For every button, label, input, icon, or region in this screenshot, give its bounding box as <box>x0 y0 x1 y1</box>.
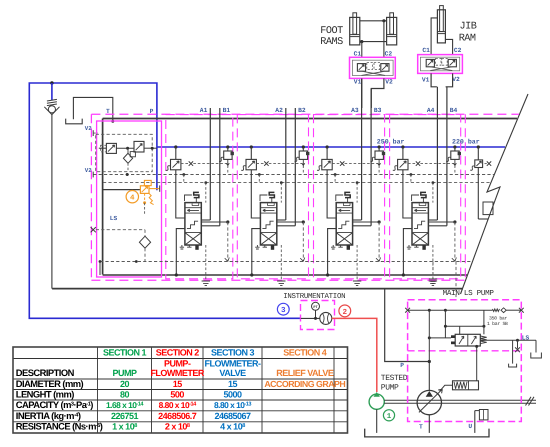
port mark at section divider for relief 4 <box>159 185 161 191</box>
node: P rail tap port-relief S4 <box>453 145 456 148</box>
tank mark below block S3 <box>353 281 361 286</box>
counterbalance valve right (foot) <box>381 64 389 72</box>
svg-text:RAM: RAM <box>459 33 476 44</box>
LS signal line out <box>480 339 517 341</box>
phantom 5th section cut by break line <box>477 145 480 148</box>
svg-text:V1: V1 <box>354 79 362 86</box>
counterbalance valve left (jib) <box>426 59 434 66</box>
work line B2 <box>294 108 296 226</box>
magenta inner box around inlet section <box>97 121 162 277</box>
work line B3 <box>370 89 372 226</box>
parameters table <box>13 347 348 433</box>
pilot dashed rail 2 <box>103 182 491 184</box>
main pump (variable, circle) <box>417 390 441 414</box>
svg-text:DIAMETER (mm): DIAMETER (mm) <box>16 378 84 389</box>
svg-text:PUMP: PUMP <box>112 368 136 378</box>
wire C1 jib (rod side) <box>431 18 437 55</box>
circled 3 (blue) <box>277 303 289 315</box>
tank marks under spool S2 <box>255 245 259 249</box>
svg-text:U: U <box>468 423 472 430</box>
spool spring actuator S1 <box>194 192 199 197</box>
svg-text:INERTIA (kg·m-4): INERTIA (kg·m-4) <box>16 410 81 421</box>
crossing pilot lines (foot) <box>362 71 386 75</box>
svg-text:RESISTANCE (Ns·m-5): RESISTANCE (Ns·m-5) <box>16 421 103 432</box>
node: T port junction <box>111 120 114 123</box>
svg-text:226751: 226751 <box>111 411 139 421</box>
pressure compensator S4 <box>398 159 408 169</box>
svg-text:220 bar: 220 bar <box>452 139 480 146</box>
magenta internal divider (pump box) <box>408 350 522 352</box>
svg-text:PUMP: PUMP <box>381 383 399 392</box>
directional spool valve S3 <box>336 203 352 245</box>
wire: compensator out to spool S1 <box>176 170 185 218</box>
work line A4 <box>436 87 438 220</box>
LS tap from spool S2 <box>277 221 304 223</box>
svg-text:SECTION 4: SECTION 4 <box>283 347 327 357</box>
svg-text:MAIN LS PUMP: MAIN LS PUMP <box>443 289 495 298</box>
wire: compensator feed S4 <box>402 147 404 159</box>
tested pump drain to tank <box>376 409 378 433</box>
directional spool valve S1 <box>185 203 201 245</box>
spool drain to tank rail S2 <box>252 229 261 275</box>
wire: compensator out to spool S2 <box>251 170 260 218</box>
flowmeter <box>320 312 332 324</box>
orange relief valve 4 feed line <box>103 189 141 191</box>
LS dashed line to main pump <box>455 262 457 300</box>
jib counterbalance valve box (magenta) <box>418 55 463 74</box>
node: P rail tap compensator S2 <box>250 145 253 148</box>
circled 2 (red) <box>339 305 351 317</box>
jib ram cylinder <box>437 10 445 43</box>
pressure reducing valve A (inlet) <box>106 143 116 153</box>
spool drain to tank rail S4 <box>403 229 412 275</box>
dashed pilot under orange relief <box>144 193 146 202</box>
svg-text:ACCORDING GRAPH: ACCORDING GRAPH <box>264 379 345 389</box>
pressure reducing valve B (inlet) <box>134 141 144 152</box>
check/filter diamond upper (inlet) <box>123 153 132 163</box>
node: P rail tap port-relief S2 <box>302 145 305 148</box>
spool spring actuator S2 <box>269 192 274 197</box>
svg-text:VALVE: VALVE <box>219 368 246 378</box>
svg-text:C2: C2 <box>454 47 462 54</box>
svg-text:B4: B4 <box>450 107 458 114</box>
wire LS valve to stroking piston <box>476 346 478 381</box>
crossing pilot lines (jib) <box>430 67 452 71</box>
magenta enclosure section 4 <box>390 115 461 279</box>
svg-text:FLOWMETER-: FLOWMETER- <box>205 358 261 368</box>
port marks on left edge V2/V3 <box>92 172 94 178</box>
svg-text:C2: C2 <box>385 50 393 57</box>
node: P rail tap compensator S4 <box>401 145 404 148</box>
svg-text:V2: V2 <box>452 76 460 83</box>
work line A3 <box>361 78 363 220</box>
svg-text:1: 1 <box>387 413 392 421</box>
node: P rail tap port-relief S3 <box>378 145 381 148</box>
magenta enclosure section 3 <box>314 115 385 279</box>
spool drain to tank rail S3 <box>328 229 337 275</box>
svg-text:B2: B2 <box>298 107 306 114</box>
wire into flowmeter <box>301 317 320 319</box>
work line B1 <box>219 108 221 226</box>
svg-text:JIB: JIB <box>460 22 477 33</box>
pressure compensator S1 <box>171 159 181 169</box>
magenta enclosure section 1 <box>166 115 233 279</box>
wire: foot rams piston-side interconnect <box>360 41 387 43</box>
port relief valve S4 <box>454 147 456 151</box>
wire V2 to B3 <box>371 78 384 108</box>
spool X cell S2 <box>260 233 276 245</box>
tank marks under spool S1 <box>180 245 184 249</box>
svg-text:PUMP-: PUMP- <box>164 358 191 368</box>
wire V1 to A3 <box>361 78 363 108</box>
pilot dashes and LS drain S4 <box>410 173 413 176</box>
foot ram cylinder left <box>350 17 360 45</box>
svg-text:4 x 108: 4 x 108 <box>220 422 245 432</box>
spool spring actuator S4 <box>421 192 426 197</box>
LS control valve (main pump) <box>455 334 480 346</box>
inlet pilot dashed enclosure <box>96 134 153 171</box>
svg-text:A4: A4 <box>427 107 435 114</box>
circled 1 (green) <box>383 410 394 421</box>
wire: relief valve drain down to tank rail <box>51 115 53 289</box>
valve block P outlet down to pump <box>385 289 430 362</box>
svg-text:1 x 108: 1 x 108 <box>112 422 137 432</box>
pump case drain T <box>428 415 430 433</box>
svg-text:LS: LS <box>110 215 118 222</box>
wires feeding LS valve <box>444 310 446 338</box>
svg-text:RELIEF VALVE: RELIEF VALVE <box>276 368 334 378</box>
svg-text:3: 3 <box>281 306 286 315</box>
tank mark below block S4 <box>429 281 437 286</box>
svg-text:T: T <box>419 424 423 431</box>
spool spring actuator S3 <box>345 192 350 197</box>
blue supply loop (pump output line) <box>29 83 300 318</box>
svg-text:SECTION 3: SECTION 3 <box>211 347 255 357</box>
tank return rail inside block <box>103 274 467 276</box>
filter diamond lower (inlet) <box>139 236 150 248</box>
pump shaft out right with break <box>526 397 535 406</box>
node: tap on blue supply to relief valve <box>50 81 53 84</box>
wire C2 foot rams <box>383 21 385 58</box>
svg-text:2: 2 <box>343 308 348 317</box>
main tank under pumps <box>365 429 489 437</box>
port relief valve S3 <box>378 147 380 151</box>
magenta enclosure: outer dashed boundary of valve block <box>91 113 519 115</box>
svg-text:C1: C1 <box>422 47 430 54</box>
dashed pilot from compensator S1 <box>181 163 189 165</box>
wire: compensator out to spool S3 <box>327 170 336 218</box>
wire: T return from tank to valve block T port <box>73 97 112 121</box>
pilot dashes and LS drain S1 <box>182 173 185 176</box>
svg-text:V2: V2 <box>85 125 92 132</box>
wire C1 foot rams <box>361 42 363 58</box>
dashed pilot from compensator S4 <box>408 163 416 165</box>
node: inlet LS drop <box>99 260 102 263</box>
orange relief valve (adjustable) <box>140 186 149 194</box>
work line A1 <box>209 108 211 220</box>
svg-text:DESCRIPTION: DESCRIPTION <box>16 367 75 378</box>
svg-text:FLOWMETER: FLOWMETER <box>150 368 204 378</box>
port relief valve S2 <box>302 147 304 151</box>
tested pump (green circle) <box>369 394 384 409</box>
directional spool valve S4 <box>412 203 428 245</box>
tank mark below block S2 <box>277 281 285 286</box>
circled 4 (orange) <box>126 191 138 203</box>
main pump magenta enclosure <box>408 300 522 422</box>
svg-text:B3: B3 <box>374 107 382 114</box>
svg-text:A3: A3 <box>351 107 359 114</box>
svg-text:15: 15 <box>173 379 183 389</box>
block outer bottom edge / drain rail <box>52 288 463 290</box>
wire: compensator feed S1 <box>175 147 177 159</box>
break line (diagonal block boundary) <box>461 94 529 294</box>
dashed line from blocked port to filter <box>96 229 145 231</box>
svg-text:250 bar: 250 bar <box>377 139 405 146</box>
spool X cell S3 <box>336 233 352 245</box>
dashed pilot from compensator S2 <box>256 163 264 165</box>
pressure compensator S3 <box>322 159 332 169</box>
svg-text:RAMS: RAMS <box>320 37 343 48</box>
wire V1 to A4 <box>431 73 437 86</box>
work line A2 <box>285 108 287 220</box>
wire: foot rams rod-side interconnect <box>360 20 387 22</box>
svg-text:20: 20 <box>120 379 130 389</box>
pilot dashed rail 1 (V2 pilot line) <box>93 174 494 176</box>
spool X cell S4 <box>412 233 428 245</box>
wire: compensator feed S2 <box>250 147 252 159</box>
node: P rail tap port-relief S1 <box>226 145 229 148</box>
work line B4 <box>446 87 448 226</box>
svg-text:2 x 108: 2 x 108 <box>165 422 190 432</box>
svg-text:2468506.7: 2468506.7 <box>158 411 197 421</box>
svg-text:LENGHT (mm): LENGHT (mm) <box>16 388 74 399</box>
wire: inlet LS drop to tank rail <box>99 262 101 276</box>
svg-text:C1: C1 <box>354 50 362 57</box>
valve block outline (black casing) <box>103 118 517 120</box>
svg-text:1 bar SB: 1 bar SB <box>487 321 508 327</box>
svg-text:FOOT: FOOT <box>320 26 343 37</box>
wire: compensator feed S3 <box>326 147 328 159</box>
relief valve (spring-loaded check) on tank line <box>51 83 53 100</box>
svg-text:V2: V2 <box>85 167 92 174</box>
tank mark below block S1 <box>202 281 210 286</box>
svg-text:A2: A2 <box>275 107 283 114</box>
node: pilot line taps <box>126 147 129 150</box>
svg-text:500: 500 <box>170 389 184 399</box>
counterbalance valve left (foot) <box>357 64 365 72</box>
svg-text:15: 15 <box>228 379 238 389</box>
magenta right edge of outer enclosure <box>464 114 466 280</box>
stroking piston with spring <box>453 381 479 390</box>
pressure compensator S2 <box>246 159 256 169</box>
U drain and label <box>474 411 476 433</box>
svg-text:5000: 5000 <box>223 389 242 399</box>
wire: blue P rail feeding all sections <box>157 146 505 148</box>
LS tap from spool S4 <box>428 221 455 223</box>
node: P rail tap compensator S1 <box>174 145 177 148</box>
wire: inlet pilot supply line <box>99 147 107 149</box>
svg-text:CAPACITY (m3·Pa-1): CAPACITY (m3·Pa-1) <box>16 399 93 410</box>
foot ram cylinder right <box>387 17 397 45</box>
instrumentation magenta box <box>301 301 335 330</box>
directional spool valve S2 <box>260 203 276 245</box>
pilot dashes and LS drain S2 <box>258 173 261 176</box>
svg-text:V1: V1 <box>422 76 430 83</box>
counterbalance valve right (jib) <box>448 59 456 66</box>
LS tap from spool S3 <box>353 221 380 223</box>
svg-text:LS: LS <box>522 334 530 341</box>
node: P rail tap compensator S3 <box>326 145 329 148</box>
svg-text:80: 80 <box>120 389 130 399</box>
svg-text:SECTION 1: SECTION 1 <box>103 347 147 357</box>
tank marks under spool S4 <box>407 245 411 249</box>
svg-text:P: P <box>400 362 404 369</box>
LS tap from spool S1 <box>201 221 228 223</box>
pump box top rail with orifice <box>408 309 493 311</box>
svg-text:TESTED: TESTED <box>381 374 408 383</box>
wire: compensator out to spool S4 <box>403 170 412 218</box>
svg-text:4: 4 <box>130 195 135 203</box>
tank marks under spool S3 <box>331 245 335 249</box>
svg-text:B1: B1 <box>223 107 231 114</box>
drive shaft between pumps <box>384 399 536 401</box>
blocked port x-mark on left edge <box>91 227 96 232</box>
foot rams counterbalance valve box (magenta) <box>350 57 396 78</box>
svg-text:24685067: 24685067 <box>214 411 251 421</box>
svg-text:INSTRUMENTATION: INSTRUMENTATION <box>283 293 345 301</box>
wire V2 to B4 <box>446 73 453 86</box>
pilot dashes and LS drain S3 <box>334 173 337 176</box>
LS valve drain <box>512 340 514 363</box>
svg-text:SECTION 2: SECTION 2 <box>156 347 200 357</box>
magenta enclosure section 2 <box>237 115 308 279</box>
dashed pilot from compensator S3 <box>332 163 340 165</box>
spool drain to tank rail S1 <box>176 229 185 275</box>
spool X cell S1 <box>185 233 201 245</box>
wire C2 jib (piston side) <box>445 39 452 54</box>
svg-text:V2: V2 <box>385 79 393 86</box>
port relief valve S1 <box>227 147 229 151</box>
pressure transducer PT <box>312 302 320 310</box>
tank symbol (reservoir) top-left <box>66 119 83 124</box>
LS drain tank mark near pump <box>432 262 434 280</box>
wire pump P riser <box>428 362 430 392</box>
red line flowmeter to tested pump <box>332 318 377 392</box>
svg-text:350 bar: 350 bar <box>489 316 507 322</box>
LS dashed rail <box>100 261 472 263</box>
svg-text:A1: A1 <box>200 107 208 114</box>
